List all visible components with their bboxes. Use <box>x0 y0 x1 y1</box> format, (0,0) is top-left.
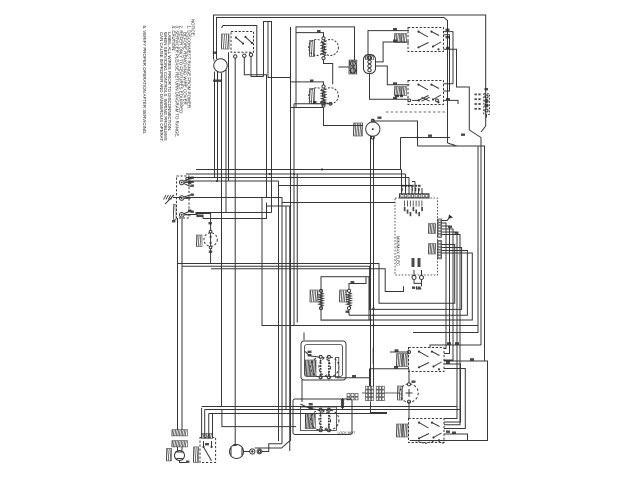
wire ind out <box>262 444 281 452</box>
control relay contacts <box>412 270 424 289</box>
wire door sw right <box>337 369 370 378</box>
terminal side text <box>173 205 176 220</box>
strip stubs above <box>401 185 421 192</box>
bus V289 <box>289 206 291 451</box>
wire bake to plug <box>338 66 349 68</box>
bus V278 <box>278 182 280 441</box>
wire R2 bottom <box>346 310 350 315</box>
terminal L2 <box>179 211 191 217</box>
wire S2-S3 right <box>444 362 461 423</box>
wire SW1-c <box>244 57 266 197</box>
wire bus x478 <box>413 146 478 333</box>
switch SW1 label <box>221 34 229 49</box>
wire bake bottom <box>324 60 333 84</box>
relay box K2 <box>408 81 444 105</box>
terminal labels <box>172 177 194 223</box>
wire door link <box>301 380 303 402</box>
wire A1-4 <box>376 66 410 85</box>
wire S2 left2 <box>372 348 374 365</box>
wire S2 left <box>370 366 409 369</box>
clock wires below <box>215 72 222 407</box>
inline conn C1 <box>172 430 188 436</box>
wire jog1 <box>279 181 413 194</box>
control label MIN/MAX <box>396 236 401 266</box>
oven lamp label <box>166 448 171 461</box>
oven lamp symbol <box>204 230 217 248</box>
wire mid bus1 <box>178 218 455 303</box>
wire K1 down <box>444 47 470 130</box>
oven lamp bulb <box>175 447 185 461</box>
lock sw circle2 <box>319 408 339 431</box>
svg-text:LOCK MOT: LOCK MOT <box>338 431 356 435</box>
wire loop top <box>264 22 272 213</box>
wire strip feed5 <box>419 188 423 194</box>
wire probe bottom <box>408 403 410 418</box>
wire broil top <box>291 80 324 85</box>
indicator rings <box>257 449 262 454</box>
probe circle <box>400 383 418 404</box>
wire mid bus2 <box>182 218 462 309</box>
wire mid bus5 <box>321 253 472 320</box>
wire strip feed1 <box>401 170 403 195</box>
wire mid bus6 <box>262 198 478 326</box>
door sw circle1 <box>311 355 331 378</box>
wire A1-3 <box>370 74 409 100</box>
probe label <box>397 381 415 401</box>
wire lamp down <box>210 249 212 264</box>
grid G3 <box>347 394 358 400</box>
connector J2 labels <box>428 244 435 255</box>
wire L1 runs <box>186 178 409 182</box>
wire lock return <box>222 410 296 427</box>
bake element resistor <box>321 37 325 60</box>
junction dots hbus <box>216 168 323 182</box>
relay K2 labels <box>394 87 406 96</box>
oven light switch SW1 <box>231 32 254 53</box>
wire TOD feeds <box>202 408 213 438</box>
wire bottom diag <box>255 441 290 448</box>
wire SW1-a <box>234 58 236 444</box>
wire grid down <box>369 369 371 386</box>
lock sw circle1 <box>311 408 331 431</box>
neon lamp <box>250 449 255 454</box>
door switch box <box>301 341 346 380</box>
bake element circles <box>309 40 339 56</box>
bus V290 <box>290 27 292 441</box>
wire S2 east361b <box>444 358 485 361</box>
relay K2 contact row <box>395 95 438 102</box>
bottom H bus2 <box>205 409 461 411</box>
wire L2 run <box>185 213 271 215</box>
switch SW1 terminals <box>234 53 253 58</box>
svg-text:5. VERIFY PROPER OPERATION AFT: 5. VERIFY PROPER OPERATION AFTER SERVICI… <box>142 26 147 135</box>
TOD switch <box>202 441 212 461</box>
wire lamp bottom <box>180 461 190 463</box>
wire right V487 <box>410 361 488 441</box>
surface unit R1 <box>319 289 323 310</box>
door sw side rect <box>336 357 339 377</box>
wire strip feed2 <box>405 174 407 194</box>
wire strip feed3 <box>408 178 410 195</box>
wire S3 bottom diag <box>415 441 444 444</box>
door motor <box>230 444 244 459</box>
lock switch box S2 <box>409 348 445 372</box>
wire door sw top <box>303 333 305 341</box>
wire SW1-d <box>251 57 264 77</box>
lock motor label <box>338 431 356 435</box>
wire BLK bus1 <box>184 178 187 182</box>
wire TOD mark <box>197 215 203 218</box>
bake box bottom <box>291 107 324 109</box>
wire broil bottom <box>324 107 364 125</box>
lock motor box <box>293 399 352 435</box>
wire mid riser <box>268 22 291 78</box>
wire L2 run2 <box>203 203 267 219</box>
door sw circle2 <box>319 355 339 378</box>
terminal N <box>179 195 190 200</box>
wire S2 east345 <box>430 342 481 347</box>
wire R2 top <box>349 277 366 290</box>
wire J1-4 <box>442 229 459 360</box>
wire L1 run3 <box>186 170 406 175</box>
surface unit box <box>321 277 369 321</box>
wire mid bus4 <box>349 251 467 316</box>
bus V286 <box>285 206 287 410</box>
ground symbol <box>164 195 183 204</box>
wire fan down b <box>373 137 375 386</box>
clock label blobs <box>213 52 221 82</box>
connector grid G1 <box>366 386 374 400</box>
control pins inside <box>404 201 423 217</box>
control box dashed <box>395 198 438 275</box>
wire SW1-b <box>228 52 230 181</box>
wire clock right <box>225 70 227 213</box>
wire bus H146 <box>418 146 485 361</box>
TOD box <box>200 438 216 463</box>
control connector strip <box>400 194 430 198</box>
inline conn C2 <box>172 441 188 447</box>
wire fan top <box>373 117 418 147</box>
wire relay down <box>417 286 422 289</box>
svg-text:CAN CAUSE IMPROPER AND DANGERO: CAN CAUSE IMPROPER AND DANGEROUS OPERAT. <box>159 32 164 142</box>
wire jog3 <box>267 203 290 207</box>
surface unit R2 <box>347 289 351 310</box>
wire bus H137 <box>401 135 482 346</box>
wire A1-2 <box>376 40 410 62</box>
svg-text:MIN/MAX ELEC: MIN/MAX ELEC <box>396 236 401 266</box>
bake box outline <box>296 27 355 108</box>
lock sw wire in <box>300 404 318 410</box>
door sw wire in <box>304 351 318 357</box>
terminal L1 <box>179 178 190 187</box>
bottom H bus1 <box>202 406 457 408</box>
wire strip feed4 <box>412 182 415 195</box>
wire J1-3 <box>442 226 450 354</box>
connector grid G2 <box>376 386 384 400</box>
bus V294 <box>293 169 295 325</box>
connector J2 <box>438 241 442 259</box>
control relay blobs <box>412 258 421 267</box>
bake element label <box>309 41 314 57</box>
notes text block <box>142 19 195 142</box>
wire J1-1 arrow <box>442 215 454 221</box>
wire S2-S3 right2 <box>444 369 465 433</box>
relay K1 labels <box>394 34 406 43</box>
clock circle <box>214 59 227 72</box>
fan motor label <box>353 123 362 136</box>
wire fan down a <box>370 136 372 387</box>
wire top L1 run <box>214 15 486 126</box>
power receptacle <box>349 60 357 74</box>
wire jog2 <box>264 198 396 203</box>
wire grid link <box>362 392 400 394</box>
door sw labels <box>305 351 316 376</box>
terminal block TB <box>177 176 190 218</box>
wire L2 blob <box>188 177 191 212</box>
wire junction diag <box>448 130 482 146</box>
wire K1-K2 a <box>444 29 454 84</box>
connector P9 <box>484 94 490 115</box>
wire lamp top <box>197 214 212 253</box>
TOD labels <box>193 434 212 463</box>
bus V297 <box>296 174 298 323</box>
fan motor <box>366 119 380 139</box>
broil element circles <box>309 88 339 104</box>
connector J1 <box>438 219 442 237</box>
surface R1 label <box>310 290 318 302</box>
wire J1-6 <box>442 235 461 425</box>
lock switch box S3 <box>409 419 445 443</box>
wire bus x486 jog <box>481 126 486 132</box>
wire bake top <box>296 30 324 37</box>
oven lamp label <box>196 235 202 247</box>
wire V177 down <box>178 218 183 430</box>
wire S2 left top <box>390 349 411 353</box>
wire probe top <box>408 369 410 383</box>
wire lock up <box>331 398 344 410</box>
connector P9 labels <box>475 94 481 110</box>
connector J1 labels <box>428 224 435 234</box>
door motor right <box>244 451 250 453</box>
wire top L2 run <box>217 18 448 144</box>
junction dots fan <box>369 307 374 326</box>
dashed enclosure line <box>386 111 445 113</box>
S3 labels <box>396 424 408 437</box>
connector A1 oval <box>364 55 376 74</box>
wire clock branch <box>222 26 257 77</box>
S2 labels <box>396 354 408 367</box>
broil element label <box>309 89 314 104</box>
broil element resistor <box>321 85 325 107</box>
bus V282 <box>281 203 283 444</box>
wire V281 <box>280 443 283 445</box>
wire N run <box>185 197 263 199</box>
relay box K1 <box>408 28 444 52</box>
surface R2 label <box>339 290 346 302</box>
wire grid bottom <box>371 402 388 413</box>
wire mid bus3 <box>211 269 404 292</box>
wire P9 stub <box>485 88 489 118</box>
lock sw labels <box>305 403 315 429</box>
wire broil return <box>294 101 332 105</box>
wire J1-5 <box>442 232 458 419</box>
wire S3 out <box>444 432 468 441</box>
wire broil down <box>293 104 295 170</box>
wire K2 out <box>444 98 459 104</box>
wire J1-2 <box>442 223 453 349</box>
wire K1-K2 b <box>444 35 450 91</box>
wire A1-1 <box>368 28 409 55</box>
bottom H bus3 <box>209 413 387 415</box>
